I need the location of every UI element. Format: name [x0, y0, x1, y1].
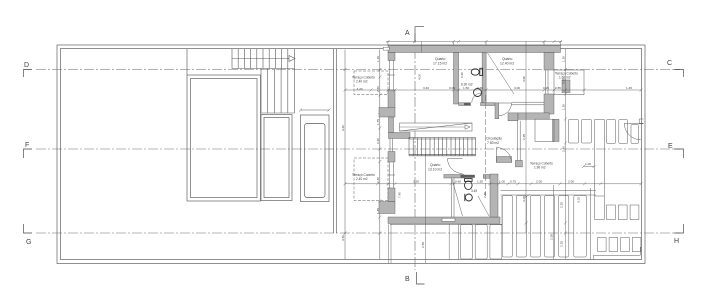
svg-text:3.15: 3.15	[577, 197, 581, 203]
svg-text:1.30: 1.30	[562, 56, 566, 62]
door threshold bath2	[461, 175, 475, 178]
svg-text:A: A	[405, 30, 410, 37]
svg-text:1.75: 1.75	[376, 119, 380, 125]
window in bottom wall	[442, 218, 455, 221]
gate door right wall	[624, 123, 643, 140]
wall house right upper	[544, 53, 554, 71]
svg-text:1.00: 1.00	[499, 180, 505, 184]
site boundary inner wall	[61, 49, 642, 260]
svg-text:H: H	[674, 238, 679, 245]
wall bath1 right	[482, 53, 486, 103]
svg-text:2.25: 2.25	[560, 202, 564, 208]
svg-text:7.80 m2: 7.80 m2	[487, 141, 499, 145]
svg-text:Quarto: Quarto	[430, 163, 440, 167]
dim vertical quarto1	[421, 42, 423, 53]
dashed terrace box upper left	[354, 71, 388, 95]
wall stair side	[389, 117, 394, 133]
toilet bath1	[471, 68, 482, 75]
grid line F-E	[36, 148, 680, 150]
wall bath1 bottom right	[481, 103, 496, 106]
svg-text:3.15: 3.15	[522, 196, 526, 202]
wall bath1 bottom left	[459, 103, 471, 106]
svg-text:1.90 m2: 1.90 m2	[534, 166, 546, 170]
pillar terrace SE lower	[515, 160, 522, 167]
interior stair upper flight	[400, 123, 473, 131]
svg-text:0.25: 0.25	[543, 86, 549, 90]
pool edge line	[186, 49, 188, 75]
svg-text:1.45: 1.45	[376, 208, 380, 214]
wall house left mid	[388, 90, 395, 108]
svg-text:2.05: 2.05	[536, 180, 542, 184]
svg-text:G: G	[26, 239, 31, 246]
svg-text:2.35: 2.35	[483, 192, 487, 198]
exterior stair lower run	[261, 69, 295, 114]
dim row mid y90	[345, 89, 641, 91]
svg-text:4.00: 4.00	[418, 74, 422, 80]
svg-text:B: B	[405, 276, 410, 283]
grid tick F	[24, 149, 33, 158]
svg-text:2.25: 2.25	[522, 134, 526, 140]
grid tick C	[674, 70, 684, 78]
wardrobe diagonal bath2	[452, 179, 463, 216]
pillar terrace SE	[508, 113, 518, 121]
grid line A-B	[414, 33, 416, 270]
svg-text:7.40: 7.40	[398, 192, 402, 198]
terrace 1.60 pillar	[562, 80, 570, 93]
window left lower	[388, 162, 395, 188]
svg-text:1.00: 1.00	[585, 162, 591, 166]
door arc bedroom3	[448, 159, 463, 174]
sliding door left terrace	[390, 139, 393, 152]
svg-text:Circulação: Circulação	[486, 137, 502, 141]
grid line G-H	[36, 232, 680, 234]
wall terrace SE right	[553, 119, 560, 141]
site boundary outer wall	[57, 45, 645, 264]
svg-text:3.45: 3.45	[471, 189, 477, 193]
svg-text:2.40 m2: 2.40 m2	[356, 80, 368, 84]
grid tick E	[674, 149, 684, 158]
svg-text:2.40: 2.40	[562, 146, 566, 152]
dim row top	[386, 41, 562, 43]
door arc entrance	[499, 103, 512, 116]
interior stair treads	[409, 138, 476, 156]
deck slats right group	[502, 196, 512, 258]
deck edge lines	[501, 191, 597, 226]
wall terrace SE top	[518, 113, 549, 119]
svg-text:0.20: 0.20	[376, 138, 380, 144]
svg-text:E: E	[668, 143, 673, 150]
planter box outer	[301, 115, 330, 202]
pool outer rect	[187, 75, 261, 201]
pergola slats top right	[568, 120, 578, 144]
wall below entrance	[495, 103, 499, 119]
wall between quarto1 and bath1	[454, 53, 459, 105]
dashed terrace box lower left	[354, 158, 388, 201]
window left upper	[388, 60, 395, 90]
wall house left seg3	[388, 152, 395, 163]
sink bath1	[474, 89, 482, 97]
planter squares upper row	[607, 205, 616, 220]
wall bath2 top right	[483, 175, 490, 179]
dim vertical bath axis	[484, 95, 486, 196]
svg-text:3.20: 3.20	[413, 180, 419, 184]
svg-text:0.60: 0.60	[562, 78, 566, 84]
house bottom wall lower line	[390, 223, 502, 225]
pool inner rect	[191, 79, 258, 198]
svg-text:1.50: 1.50	[477, 180, 483, 184]
svg-text:0.60: 0.60	[477, 86, 483, 90]
pillar left upper	[379, 108, 395, 118]
dim vertical quarto3	[424, 155, 426, 263]
svg-text:2.00: 2.00	[568, 180, 574, 184]
svg-text:1.50: 1.50	[463, 86, 469, 90]
wall bath2 right	[490, 174, 498, 217]
grid line D-C	[36, 69, 680, 71]
wall circulation-terrace	[497, 157, 512, 163]
exterior stair upper run treads	[232, 49, 295, 69]
svg-text:Quarto: Quarto	[502, 57, 512, 61]
svg-text:3.30: 3.30	[341, 235, 345, 241]
dim line 9.20 vertical	[344, 50, 347, 260]
wall bath2 top left	[444, 175, 464, 179]
wall house top	[388, 46, 561, 53]
pillar left lower	[379, 202, 395, 214]
grid tick A	[415, 27, 424, 42]
dim 1.00 right	[582, 165, 596, 168]
svg-text:1.15: 1.15	[376, 56, 380, 62]
planter dim ticks	[299, 109, 331, 112]
planter box inner rounded	[305, 124, 326, 198]
wardrobe diagonal quarto2	[488, 53, 515, 94]
door arc terrace SE	[497, 148, 512, 163]
sink bath2	[465, 194, 473, 201]
stair diagonal break	[400, 123, 473, 131]
svg-text:3.00: 3.00	[514, 86, 520, 90]
svg-text:9.20: 9.20	[341, 125, 345, 131]
wall house left seg4	[388, 188, 395, 202]
svg-text:0.75: 0.75	[510, 180, 516, 184]
planter squares lower row	[598, 238, 607, 252]
svg-text:0.85: 0.85	[555, 86, 561, 90]
grid tick H	[674, 224, 684, 233]
right wall jog	[639, 119, 643, 124]
dim row lower y183.8	[345, 183, 641, 185]
svg-text:0.60: 0.60	[460, 72, 464, 78]
stair lower landing box outer	[261, 115, 292, 201]
dim vertical right 565	[565, 49, 567, 259]
dim vertical quarto2 axis	[525, 42, 527, 234]
wall quarto2 bottom glazing	[512, 102, 545, 105]
terrace SE thin edge	[518, 121, 521, 161]
door arc bath1	[472, 93, 482, 103]
dim line left of house	[378, 50, 381, 260]
grid tick B	[417, 272, 425, 284]
svg-text:13.10 m2: 13.10 m2	[428, 168, 442, 172]
terrace 1.60 glazing	[546, 70, 549, 94]
svg-text:3.20: 3.20	[357, 87, 363, 91]
wall house right lower	[544, 94, 554, 114]
svg-text:1.45: 1.45	[626, 86, 632, 90]
svg-text:0.60: 0.60	[455, 180, 461, 184]
svg-text:C: C	[667, 60, 672, 67]
svg-text:D: D	[24, 62, 29, 69]
stair lower landing box inner	[264, 118, 289, 198]
bath1 threshold	[464, 103, 471, 105]
svg-text:2.40: 2.40	[376, 86, 380, 92]
wall notch top-left	[383, 47, 389, 50]
wall house left upper	[388, 53, 395, 61]
svg-text:2.40 m2: 2.40 m2	[356, 177, 368, 181]
wardrobe lines bath2	[451, 178, 454, 218]
svg-text:2.25: 2.25	[560, 241, 564, 247]
stair walk line with arrow	[232, 58, 289, 60]
garden wall	[334, 49, 337, 233]
deck slats left group	[461, 225, 473, 260]
terrace 1.60 box	[554, 70, 584, 95]
svg-text:0.05: 0.05	[449, 86, 455, 90]
wall house bottom	[388, 217, 500, 224]
shower diagonal bath2	[478, 196, 489, 216]
storage box terrace SE	[535, 119, 554, 141]
svg-text:2.35: 2.35	[421, 242, 425, 248]
grid tick D	[24, 70, 33, 78]
svg-text:3.50: 3.50	[522, 76, 526, 82]
dim vertical 553.5	[553, 185, 555, 260]
planter border L	[594, 247, 641, 260]
svg-text:1.30: 1.30	[562, 104, 566, 110]
svg-text:2.40: 2.40	[376, 177, 380, 183]
svg-text:12.40 m2: 12.40 m2	[500, 62, 514, 66]
svg-text:3.40: 3.40	[423, 86, 429, 90]
svg-text:17.15 m2: 17.15 m2	[433, 62, 447, 66]
svg-text:Quarto: Quarto	[435, 57, 445, 61]
grid tick G	[24, 224, 33, 233]
toilet bath2	[465, 179, 473, 190]
path wall double line	[595, 120, 605, 220]
svg-text:F: F	[25, 142, 29, 149]
svg-text:2.35: 2.35	[550, 234, 554, 240]
